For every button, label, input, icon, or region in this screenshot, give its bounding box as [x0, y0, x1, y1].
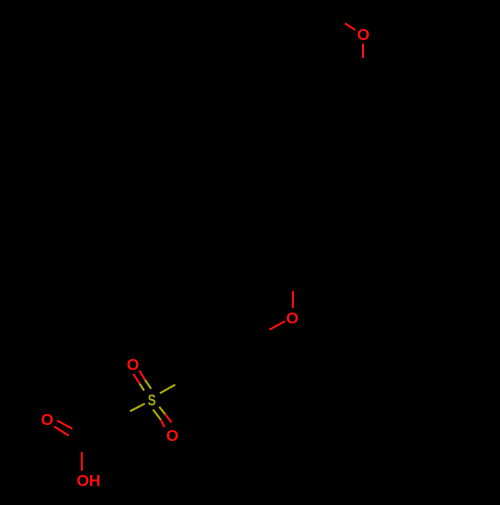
double bond S=O3, line B oxygen half	[139, 371, 145, 380]
bond S-CH2, sulfur half	[130, 404, 145, 412]
double bond S=O3, line B sulfur half	[145, 380, 151, 389]
double bond S=O4, line A oxygen half	[161, 420, 165, 427]
svg-text:O: O	[41, 412, 53, 429]
bond O-C(aryl), carbon half (black, invisible)	[362, 58, 364, 82]
bond S-CH2, carbon half (black, invisible)	[115, 411, 130, 419]
double bond S=O4, line A sulfur half	[153, 410, 161, 420]
bond C-OH, carbon half (black, invisible)	[81, 436, 83, 452]
bond S-C(aryl), sulfur half	[160, 385, 175, 394]
bond C-OH, oxygen half	[81, 452, 83, 471]
double bond S=O3, line A sulfur half	[140, 384, 145, 391]
bond CH3-O (methoxy), oxygen half	[345, 23, 355, 30]
bond O(ether)-C lower, oxygen half	[269, 321, 285, 330]
double bond S=O3, line A oxygen half	[133, 374, 139, 384]
bond O-C(aryl), oxygen half	[362, 44, 364, 59]
double bond C=O5, upper line oxygen part	[57, 421, 72, 429]
double bond S=O4, line B oxygen half	[165, 414, 171, 422]
double bond C=O5, lower line oxygen part	[54, 427, 69, 436]
svg-text:O: O	[127, 357, 139, 374]
bond CH3-O (methoxy), carbon half (black, invisible)	[326, 12, 345, 23]
svg-text:O: O	[357, 27, 369, 44]
bond C-O(ether) upper, oxygen half	[292, 291, 294, 308]
double bond S=O4, line B sulfur half	[159, 407, 165, 414]
bond O(ether)-C lower, carbon half (black, invisible)	[254, 330, 270, 339]
svg-text:OH: OH	[77, 473, 101, 490]
svg-text:S: S	[148, 392, 156, 409]
bond S-C(aryl), carbon half (black, invisible)	[175, 376, 190, 385]
svg-text:O: O	[166, 428, 178, 445]
bond C-O(ether) upper, carbon half (black, invisible)	[292, 263, 294, 291]
svg-text:O: O	[286, 311, 298, 328]
